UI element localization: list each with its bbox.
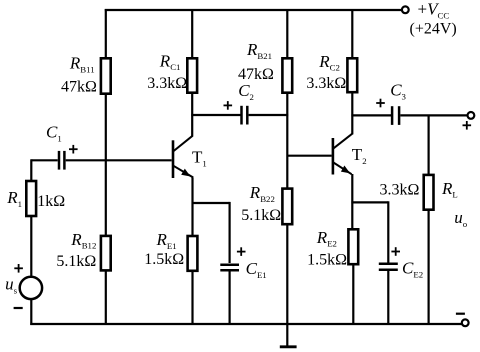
- label R1: [6, 188, 22, 209]
- svg-text:3.3kΩ: 3.3kΩ: [380, 182, 420, 199]
- wire R1 to source us: [30, 217, 32, 277]
- label T1: [192, 148, 207, 169]
- svg-text:3.3kΩ: 3.3kΩ: [147, 75, 187, 92]
- label C2: [238, 81, 254, 102]
- resistor RB22: [282, 189, 292, 225]
- wire RC2 to T2 collector: [351, 94, 353, 135]
- label RB11: [69, 54, 95, 75]
- plus polarity of C2: [224, 101, 233, 110]
- wire T1 emitter node to CE1: [192, 202, 230, 263]
- wire C1 to R1 corner: [31, 159, 57, 181]
- minus polarity at output terminal: [456, 313, 465, 315]
- svg-text:(+24V): (+24V): [410, 21, 457, 38]
- plus polarity of CE2: [391, 247, 400, 256]
- value 1.5kΩ (RE2): [307, 251, 347, 268]
- value 5.1kΩ (RB22): [241, 207, 281, 224]
- terminal +Vcc: [402, 6, 409, 13]
- label (+24V) supply value: [410, 21, 457, 38]
- resistor R1: [26, 181, 36, 216]
- transistor T2: [333, 134, 353, 175]
- wire bottom ground rail: [30, 323, 462, 325]
- label RB22: [249, 183, 275, 204]
- resistor RB12: [101, 236, 111, 271]
- value 47kΩ (RB11): [61, 78, 97, 95]
- svg-text:5.1kΩ: 5.1kΩ: [56, 253, 96, 270]
- minus polarity of us: [14, 307, 23, 309]
- capacitor CE1: [220, 265, 239, 271]
- wire rail to RC2: [351, 9, 353, 59]
- svg-text:3.3kΩ: 3.3kΩ: [306, 75, 346, 92]
- wire RB12 to ground rail: [105, 271, 107, 324]
- label us: [5, 275, 18, 296]
- value 5.1kΩ (RB12): [56, 253, 96, 270]
- resistor RC1: [187, 58, 197, 92]
- svg-text:47kΩ: 47kΩ: [238, 66, 274, 83]
- svg-text:5.1kΩ: 5.1kΩ: [241, 207, 281, 224]
- wire T2 collector node to C3: [351, 114, 391, 116]
- wire RL to ground rail: [428, 211, 430, 325]
- svg-text:47kΩ: 47kΩ: [61, 78, 97, 95]
- label CE1: [246, 259, 267, 280]
- wire CE1 to ground rail: [229, 272, 231, 325]
- wire top supply rail: [105, 9, 402, 11]
- plus polarity of C1: [69, 145, 78, 154]
- wire T2 emitter to RE2: [351, 174, 353, 230]
- resistor RL: [424, 175, 434, 210]
- wire rail to RB21: [286, 9, 288, 59]
- resistor RB21: [282, 58, 292, 92]
- wire RB11 to RB12 through T1 base bias node: [105, 95, 107, 236]
- ground: [280, 324, 297, 347]
- svg-text:1.5kΩ: 1.5kΩ: [307, 251, 347, 268]
- plus polarity at output terminal: [463, 121, 472, 130]
- resistor RC2: [347, 58, 357, 92]
- wire us to ground rail: [30, 299, 32, 325]
- terminal output plus: [468, 112, 475, 119]
- capacitor C1: [59, 151, 64, 170]
- label C1: [46, 123, 62, 144]
- value 1.5kΩ (RE1): [144, 251, 184, 268]
- wire T2 emitter node to CE2: [351, 201, 388, 262]
- label RB21: [246, 40, 272, 61]
- wire C1 to T1 base: [66, 159, 172, 161]
- resistor RE1: [188, 236, 198, 271]
- source us: [20, 277, 42, 299]
- plus polarity of C3: [376, 99, 385, 108]
- value 3.3kΩ (RL): [380, 182, 420, 199]
- wire RE2 to ground rail: [352, 265, 354, 324]
- plus polarity of CE1: [237, 247, 246, 256]
- value 1kΩ (R1): [37, 193, 65, 210]
- wire CE2 to ground rail: [387, 271, 389, 324]
- wire output node to RL: [428, 115, 430, 176]
- wire RB22 to ground rail: [286, 225, 288, 324]
- wire T1 collector node to C2: [191, 114, 240, 116]
- wire T2 base: [287, 155, 331, 157]
- label RE2: [316, 228, 337, 249]
- plus polarity of us: [14, 264, 23, 273]
- label T2: [352, 145, 367, 166]
- svg-text:1.5kΩ: 1.5kΩ: [144, 251, 184, 268]
- svg-text:1kΩ: 1kΩ: [37, 193, 65, 210]
- label C3: [390, 81, 406, 102]
- label RE1: [156, 230, 177, 251]
- value 47kΩ (RB21): [238, 66, 274, 83]
- capacitor CE2: [379, 264, 398, 270]
- terminal output minus: [462, 319, 469, 326]
- value 3.3kΩ (RC2): [306, 75, 346, 92]
- wire rail to RB11: [105, 9, 107, 59]
- wire C2 to T2 base column: [249, 114, 289, 116]
- wire RE1 to ground rail: [191, 272, 193, 325]
- label RC1: [159, 51, 181, 72]
- label RL: [441, 179, 458, 200]
- wire RB21 to RB22 through T2 base node: [286, 94, 288, 189]
- label RC2: [318, 52, 340, 73]
- label CE2: [402, 259, 423, 280]
- resistor RE2: [348, 229, 358, 264]
- resistor RB11: [101, 58, 111, 93]
- capacitor C3: [392, 106, 399, 125]
- label +Vcc: [418, 0, 450, 20]
- capacitor C2: [242, 106, 248, 125]
- value 3.3kΩ (RC1): [147, 75, 187, 92]
- wire RC1 to T1 collector: [191, 94, 193, 137]
- wire rail to RC1: [191, 9, 193, 59]
- wire C3 to output terminal: [400, 114, 467, 116]
- wire T1 emitter to RE1: [191, 178, 193, 237]
- label uo: [454, 208, 468, 229]
- transistor T1: [173, 136, 193, 178]
- label RB12: [70, 230, 96, 251]
